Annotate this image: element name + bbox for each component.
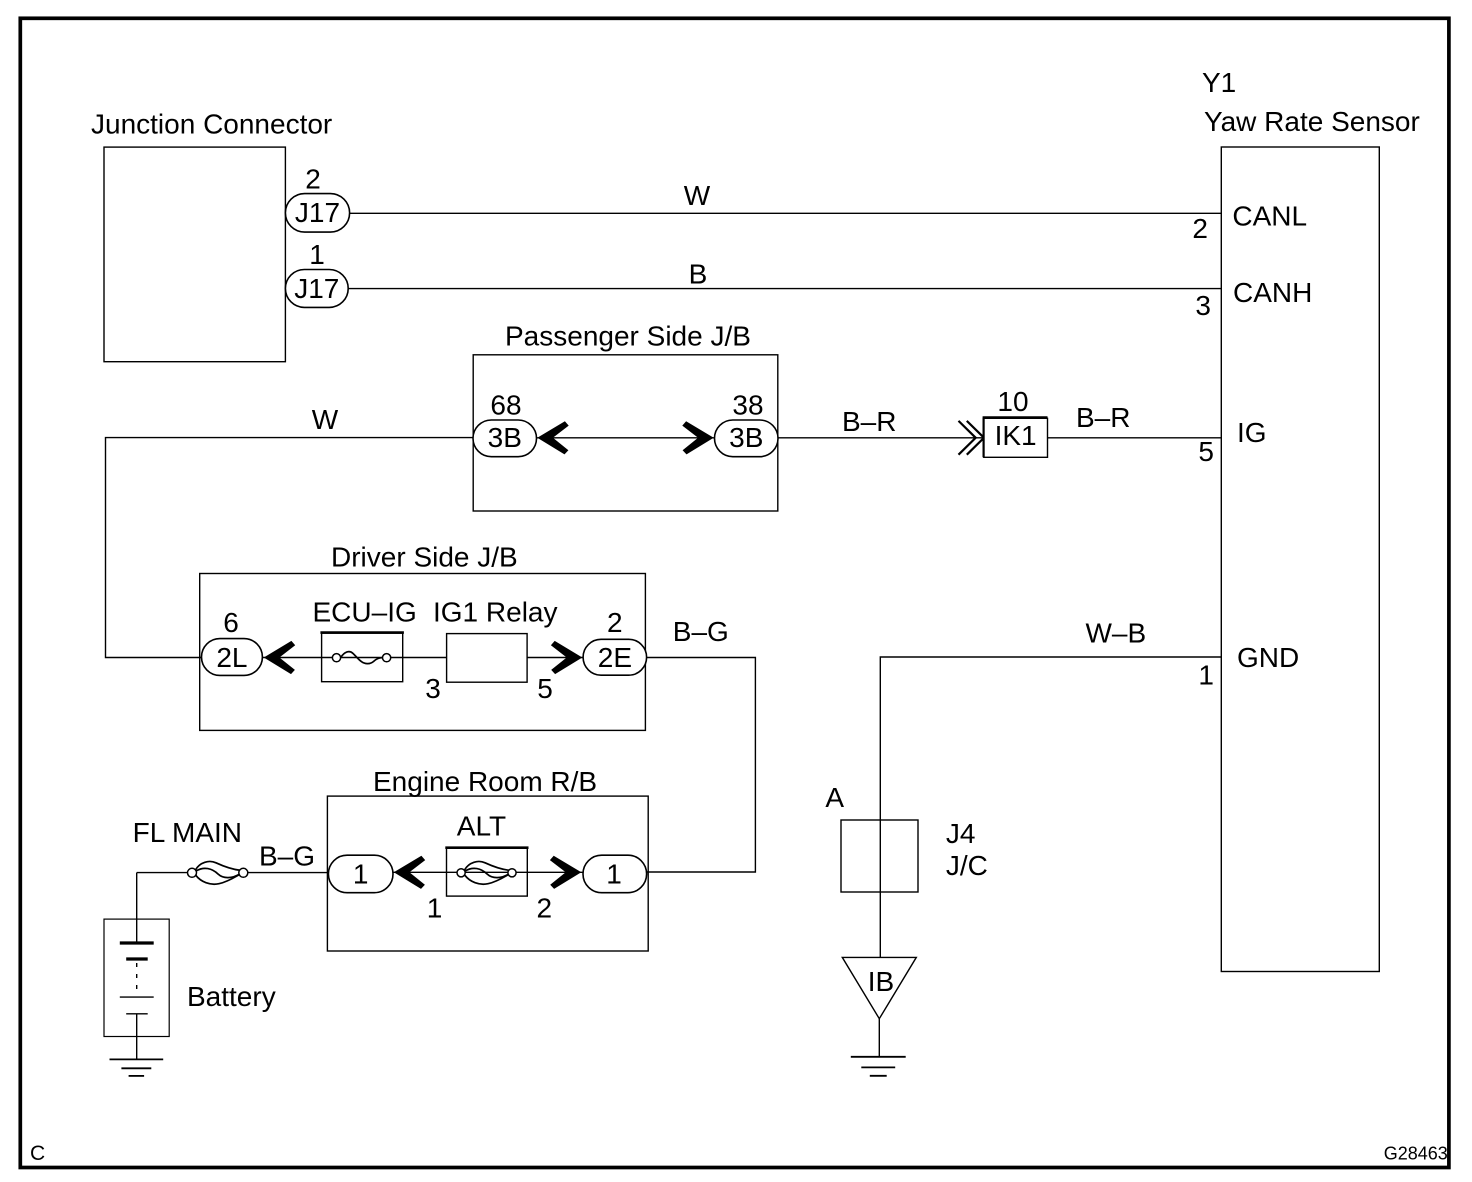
wire B-R from 3B to IK1 bbox=[778, 437, 984, 439]
connector 3B (68) oval bbox=[473, 420, 537, 457]
svg-text:2: 2 bbox=[305, 163, 321, 194]
svg-text:J17: J17 bbox=[294, 273, 339, 304]
svg-text:J4: J4 bbox=[946, 818, 976, 849]
svg-text:IK1: IK1 bbox=[995, 420, 1037, 451]
connector 2L oval bbox=[202, 639, 263, 676]
svg-text:2E: 2E bbox=[598, 642, 632, 673]
svg-text:1: 1 bbox=[353, 859, 369, 890]
svg-text:ECU–IG: ECU–IG bbox=[313, 597, 417, 628]
connector 3B (38) oval bbox=[715, 420, 779, 457]
svg-text:Yaw Rate Sensor: Yaw Rate Sensor bbox=[1204, 106, 1420, 137]
wire relay to 2E bbox=[527, 657, 583, 659]
svg-text:3: 3 bbox=[425, 673, 441, 704]
wire oval to ALT fuse bbox=[393, 871, 447, 873]
Engine Room R/B box bbox=[327, 796, 648, 951]
arrow chevron right (passenger) bbox=[682, 421, 713, 454]
svg-text:5: 5 bbox=[537, 673, 553, 704]
connector 1 oval (left, engine room) bbox=[328, 855, 393, 893]
arrow chevron right (engine room) bbox=[550, 856, 581, 889]
arrow chevron left (engine room) bbox=[394, 856, 425, 889]
svg-text:IB: IB bbox=[868, 966, 894, 997]
svg-text:B–R: B–R bbox=[1076, 402, 1130, 433]
wire IB to ground bbox=[878, 1019, 880, 1057]
svg-text:Junction Connector: Junction Connector bbox=[91, 109, 332, 140]
svg-text:W: W bbox=[684, 180, 711, 211]
wire through fuse box bbox=[322, 657, 403, 659]
svg-text:J/C: J/C bbox=[946, 850, 988, 881]
svg-text:A: A bbox=[825, 782, 844, 813]
fuse ECU-IG box bbox=[322, 633, 403, 682]
relay IG1 box bbox=[447, 634, 527, 683]
junction connector J4 box bbox=[841, 820, 918, 892]
wire battery to FL MAIN bbox=[137, 872, 188, 874]
svg-text:5: 5 bbox=[1198, 436, 1214, 467]
wire through ALT box bbox=[447, 871, 528, 873]
svg-text:3: 3 bbox=[1195, 290, 1211, 321]
svg-text:3B: 3B bbox=[729, 422, 763, 453]
junction connector J17 box bbox=[104, 147, 285, 362]
wire ALT to right oval bbox=[527, 871, 583, 873]
svg-text:IG: IG bbox=[1237, 417, 1267, 448]
connector J17 pin 1 oval bbox=[285, 270, 348, 308]
wire W-B from J4 junction up to GND pin bbox=[880, 657, 1221, 957]
connector IK1 box bbox=[984, 418, 1048, 457]
svg-text:W: W bbox=[312, 404, 339, 435]
svg-text:C: C bbox=[30, 1142, 45, 1165]
wire W from junction to passenger J/B bbox=[106, 438, 474, 658]
svg-text:3B: 3B bbox=[488, 422, 522, 453]
svg-text:68: 68 bbox=[490, 390, 521, 421]
svg-text:B–G: B–G bbox=[259, 840, 315, 871]
svg-text:B–R: B–R bbox=[842, 406, 896, 437]
svg-text:G28463: G28463 bbox=[1384, 1144, 1448, 1164]
svg-text:2: 2 bbox=[537, 892, 553, 923]
wire battery to ground bbox=[136, 1014, 138, 1060]
splice double chevron bbox=[959, 421, 976, 455]
fuse ALT element bbox=[457, 861, 516, 884]
svg-text:CANL: CANL bbox=[1232, 201, 1307, 232]
svg-text:GND: GND bbox=[1237, 642, 1299, 673]
fusible link FL MAIN element bbox=[188, 861, 248, 884]
fuse ECU-IG element bbox=[341, 652, 383, 664]
svg-text:2: 2 bbox=[1192, 213, 1208, 244]
svg-text:B–G: B–G bbox=[673, 616, 729, 647]
battery B1 wire down bbox=[136, 873, 138, 943]
svg-text:FL MAIN: FL MAIN bbox=[133, 817, 242, 848]
wire B-G from 2E down to engine room R/B bbox=[645, 658, 755, 873]
ground triangle IB bbox=[842, 957, 916, 1018]
svg-text:IG1 Relay: IG1 Relay bbox=[433, 597, 558, 628]
Y1 Yaw Rate Sensor box bbox=[1221, 147, 1379, 972]
connector 2E oval bbox=[583, 639, 647, 675]
svg-text:10: 10 bbox=[997, 386, 1028, 417]
wire CANH (B) bbox=[348, 288, 1221, 290]
wire B-R from IK1 to IG pin bbox=[1048, 437, 1222, 439]
Driver Side J/B box bbox=[200, 574, 646, 731]
wire inside passenger J/B bbox=[537, 437, 715, 439]
wire FL MAIN to engine room box bbox=[248, 872, 329, 874]
arrow chevron left (passenger) bbox=[537, 421, 568, 454]
battery B1 box bbox=[104, 919, 169, 1036]
ground (IB) bbox=[851, 1057, 906, 1076]
svg-text:1: 1 bbox=[427, 892, 443, 923]
svg-text:W–B: W–B bbox=[1086, 617, 1147, 648]
svg-text:Engine Room R/B: Engine Room R/B bbox=[373, 766, 597, 797]
arrow chevron right (driver) bbox=[551, 641, 582, 674]
arrow chevron left (driver) bbox=[264, 641, 295, 674]
svg-text:2: 2 bbox=[607, 607, 623, 638]
svg-text:Passenger Side J/B: Passenger Side J/B bbox=[505, 320, 751, 351]
svg-text:Driver Side J/B: Driver Side J/B bbox=[331, 542, 518, 573]
svg-text:J17: J17 bbox=[295, 197, 340, 228]
connector 1 oval (right, engine room) bbox=[583, 855, 647, 893]
fuse ALT box bbox=[447, 848, 528, 896]
svg-text:6: 6 bbox=[223, 607, 239, 638]
Passenger Side J/B box bbox=[473, 355, 778, 511]
svg-text:CANH: CANH bbox=[1233, 277, 1312, 308]
svg-text:Y1: Y1 bbox=[1202, 67, 1236, 98]
wire fuse to relay bbox=[403, 657, 447, 659]
wire 2L to ECU-IG fuse bbox=[263, 657, 322, 659]
svg-text:ALT: ALT bbox=[457, 811, 506, 842]
svg-text:B: B bbox=[689, 259, 708, 290]
svg-text:1: 1 bbox=[606, 859, 622, 890]
battery B1 plates bbox=[120, 941, 154, 944]
connector J17 pin 2 oval bbox=[285, 194, 349, 233]
ground (battery) bbox=[110, 1059, 164, 1076]
wire CANL (W) bbox=[350, 212, 1222, 214]
svg-text:38: 38 bbox=[732, 390, 763, 421]
svg-text:Battery: Battery bbox=[187, 981, 276, 1012]
svg-text:1: 1 bbox=[309, 239, 325, 270]
svg-text:2L: 2L bbox=[216, 642, 247, 673]
svg-text:1: 1 bbox=[1198, 660, 1214, 691]
